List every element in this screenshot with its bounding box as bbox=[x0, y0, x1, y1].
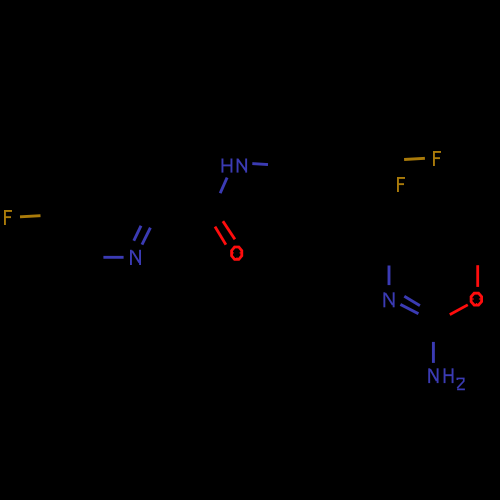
wire bond phenyl-CF2 carbon bbox=[359, 161, 393, 167]
atom label O (carbonyl oxygen, octagon glyph) bbox=[232, 247, 242, 259]
wire pyridine ring C2-C3 bbox=[136, 179, 159, 218]
atom label F1 (upper right fluorine) bbox=[433, 151, 441, 166]
bond C=O half line b (carbonyl) bbox=[223, 221, 235, 239]
wire pyridine ring C4-C5 bbox=[68, 179, 91, 218]
atom label NH2, N glyph bbox=[429, 368, 437, 383]
bond O1-C2' half bbox=[450, 305, 468, 315]
bond N1-C6 half (pyridine, horizontal) bbox=[103, 256, 123, 259]
bond F-C5 half (left fluorine) bbox=[20, 216, 41, 217]
bond N1=C2 half inner line bbox=[134, 226, 141, 241]
atom label N3 (oxazine nitrogen) bbox=[384, 292, 393, 307]
atom label HN (amide), N glyph bbox=[238, 159, 247, 173]
bond N1=C2 half main line bbox=[142, 228, 150, 245]
bond C2'-NH2 half (vertical) bbox=[432, 342, 435, 363]
atom label NH2, subscript 2 glyph bbox=[457, 378, 465, 389]
atom label F2 (lower right fluorine) bbox=[397, 177, 405, 192]
wire oxazine C5'-C6' bbox=[434, 233, 478, 254]
wire phenyl ring bbox=[281, 144, 359, 234]
atom label F (left fluorine) bbox=[4, 210, 12, 225]
wire bond phenyl-oxazine C4' bbox=[359, 211, 389, 255]
wire bond C2-C(carbonyl) bbox=[158, 215, 212, 218]
bond N(amide)-C(carbonyl) half bbox=[220, 178, 227, 194]
bond N3=C2' half inner line bbox=[404, 296, 420, 305]
atom label N1 (pyridine nitrogen) bbox=[131, 250, 140, 265]
bond C=O half line a (carbonyl) bbox=[215, 227, 226, 245]
bond O1-C6' half (oxazine, vertical) bbox=[476, 265, 479, 287]
atom label O1 (oxazine oxygen, octagon glyph) bbox=[471, 293, 482, 305]
bond CF2-F1 half (top right) bbox=[404, 158, 425, 159]
wire pyridine ring C5-C6 bbox=[68, 218, 91, 257]
bond N3-C4' half (oxazine, vertical) bbox=[388, 266, 391, 286]
wire pyridine ring C3-C4 bbox=[91, 178, 136, 181]
atom label NH2, H glyph bbox=[445, 368, 453, 383]
bond N(amide)-phenyl half bbox=[252, 164, 268, 165]
hidden carbon skeleton (carbon bonds drawn black like background) bbox=[68, 144, 478, 258]
bond N3=C2' half main line bbox=[400, 304, 418, 313]
wire oxazine C4'-C5' bbox=[389, 233, 434, 255]
atom label HN (amide), H glyph bbox=[222, 159, 231, 173]
